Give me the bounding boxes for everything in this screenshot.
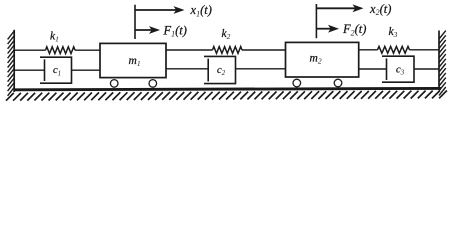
svg-text:x1(t): x1(t) bbox=[190, 3, 212, 18]
svg-text:x2(t): x2(t) bbox=[369, 2, 391, 17]
svg-text:F2(t): F2(t) bbox=[342, 22, 366, 37]
svg-text:F1(t): F1(t) bbox=[163, 23, 187, 38]
